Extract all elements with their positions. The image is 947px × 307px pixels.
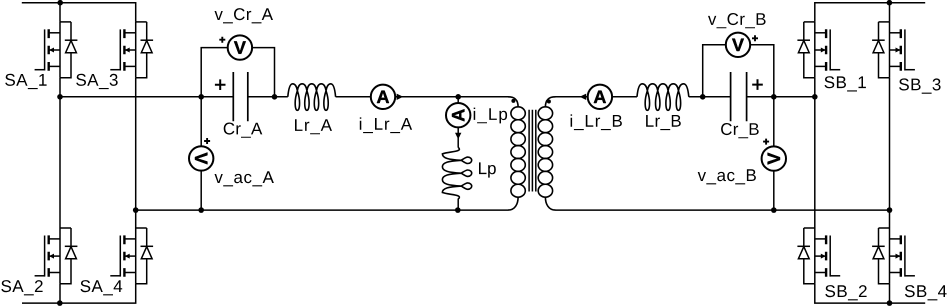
wire Lr_A to ammeter [336,96,371,98]
inductor Lr_A [288,84,336,111]
node dot A+ at SA_1 source [57,94,63,100]
node dot v_ac_B lower [771,207,777,213]
inductor Lr_B [637,84,689,111]
node dot bottom-right rail [887,300,893,306]
arrow i_Lr_A direction [397,94,404,100]
node dot bottom-left rail [57,300,63,306]
label i_Lr_A [360,117,412,133]
label SB_3 [899,78,941,93]
label Lp [479,162,496,177]
node dot A- at leg2 [133,207,139,213]
transistor SB_3 with body diode [872,22,915,78]
wire v_ac_B branch upper [773,97,775,147]
node dot B- at leg2 [887,207,893,213]
wire v_ac_B branch lower [773,171,775,210]
transformer secondary top bend [545,97,555,107]
transformer secondary winding [538,107,552,197]
transistor SA_2 with body diode [35,228,78,284]
transformer primary bottom bend [508,197,518,210]
node dot i_Lp branch [455,94,461,100]
label v_Cr_B [708,13,766,28]
wire top-left rail [22,3,136,22]
wire SB_3 drain [889,3,891,22]
wire v_ac_A branch upper [200,97,202,146]
wire v_ac_A branch lower [200,171,202,211]
voltmeter v_Cr_A [228,35,252,59]
label SA_1 [5,74,46,89]
ammeter i_Lp [446,103,470,127]
wire i_Lp branch upper [457,97,459,103]
label SB_4 [905,285,947,300]
wire SB_2 drain leg [814,97,816,228]
label Cr_A [224,123,263,138]
label i_Lr_B [571,114,622,130]
plus sign v_ac_B [763,139,769,145]
wire bottom-right rail [815,284,925,303]
wire SB_4 source [889,284,891,303]
label SB_2 [825,285,866,300]
plus sign Cr_B [752,79,763,90]
transistor SA_1 with body diode [35,22,78,78]
wire top-right rail [815,3,925,22]
wire SB_3 source to SB_4 drain leg [889,78,891,228]
wire SA_2 drain leg [59,97,61,228]
voltmeter v_Cr_B [726,33,750,57]
transformer primary top bend [508,97,518,107]
wire secondary to ammeter i_Lr_B [556,96,588,98]
plus sign Cr_A [215,79,226,90]
capacitor Cr_A [233,72,248,121]
label v_ac_B [698,169,756,184]
wire Cr_B to mid rail end [747,96,815,98]
wire SA_3 source to SA_4 drain leg [135,78,137,228]
wire SA_1 source to node A+ [59,78,61,97]
transistor SA_3 with body diode [110,22,153,78]
label v_Cr_A [215,8,274,23]
node dot v_ac_A lower [198,207,204,213]
voltmeter v_ac_A [189,146,213,170]
node dot top-left rail [57,0,63,6]
wire i_Lp to Lp [457,127,459,147]
plus sign v_ac_A [204,138,210,144]
wire SA_1 drain [59,3,61,22]
node dot v_Cr_A right [272,94,278,100]
wire SB_1 source to node B+ [814,78,816,97]
ammeter i_Lr_A [371,85,395,109]
inductor Lp [442,147,471,199]
wire ammeter to transformer [395,96,508,98]
wire bottom-left rail [22,284,136,303]
node dot v_Cr_B left [700,94,706,100]
wire Lp lower [457,199,459,211]
label i_Lp [474,108,507,124]
wire v_Cr_A loop right [252,48,274,97]
wire Lr_B to Cr_B [689,96,731,98]
transformer secondary bottom bend [545,197,555,210]
label Lr_B [646,115,681,130]
label SA_2 [1,280,42,295]
wire node B- rail [556,209,890,211]
node dot v_ac_A branch [198,94,204,100]
transistor SB_1 with body diode [797,22,840,78]
arrow i_Lr_B direction [580,94,587,100]
label SB_1 [825,76,866,91]
wire v_Cr_A loop left [201,48,228,97]
node dot top-right rail [887,0,893,6]
node dot B+ at SB_1 source [812,94,818,100]
voltmeter v_ac_B [762,146,786,170]
wire v_Cr_B loop left [703,45,726,97]
wire Cr_A to Lr_A [248,96,288,98]
wire SA_2 source to bottom rail [59,284,61,303]
label Lr_A [295,119,332,134]
label v_ac_A [215,171,274,186]
transistor SA_4 with body diode [110,228,153,284]
wire node A+ horizontal [60,96,233,98]
transistor SB_4 with body diode [872,228,915,284]
polarity dot primary [511,99,515,103]
label Cr_B [721,123,759,138]
wire v_Cr_B loop right [750,45,774,97]
label SA_4 [81,280,123,295]
capacitor Cr_B [731,72,747,121]
plus sign v_Cr_B [752,35,758,41]
node dot Lp lower [455,207,461,213]
transistor SB_2 with body diode [797,228,840,284]
wire node A- rail [136,209,508,211]
label SA_3 [76,74,118,89]
plus sign v_Cr_A [219,37,225,43]
ammeter i_Lr_B [588,85,612,109]
transformer primary winding [511,107,525,197]
node dot v_ac_B branch [771,94,777,100]
polarity dot secondary [547,100,551,104]
wire ammeter to Lr_B [612,96,637,98]
transformer core [529,110,536,192]
arrow i_Lp direction [455,133,461,139]
